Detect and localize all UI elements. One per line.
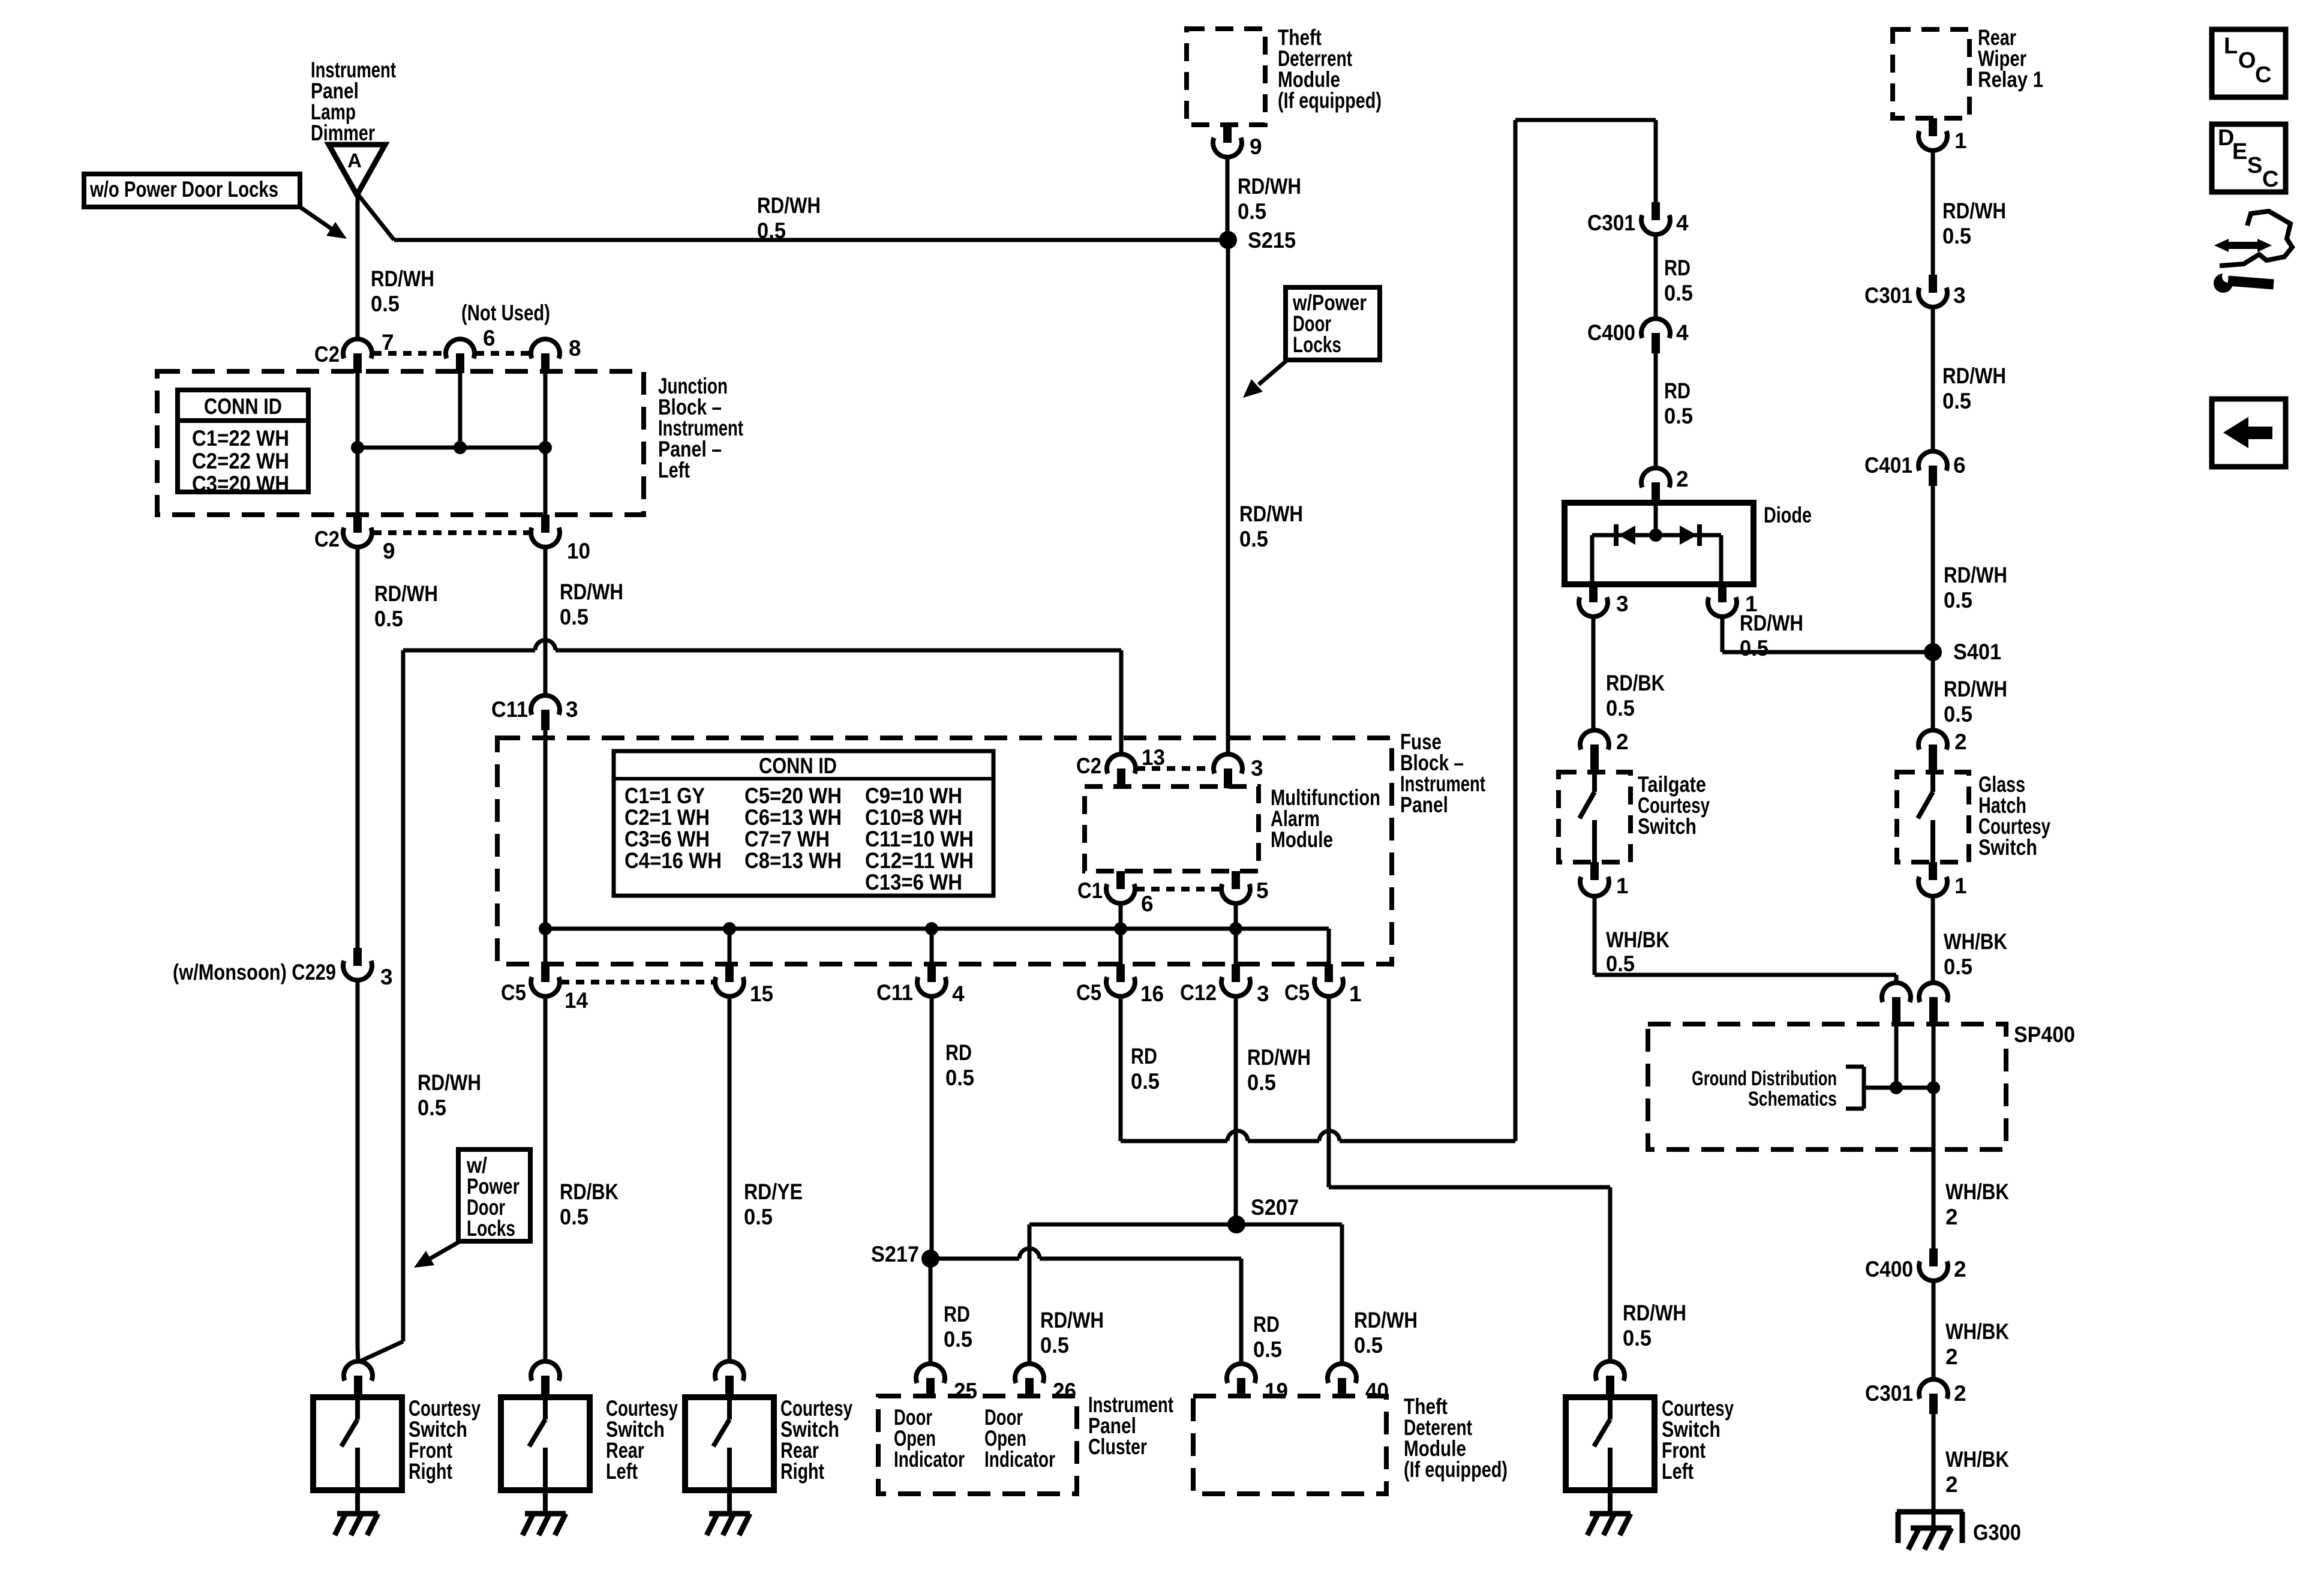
label 25: [954, 1379, 977, 1403]
label 14: [565, 988, 588, 1013]
junction block internal wire pin8: [544, 373, 548, 515]
connector C5 pin 14: [531, 964, 560, 996]
wire S207 left branch to pin 26: [1029, 1224, 1236, 1365]
diode label: [1764, 503, 1812, 527]
svg-text:C12=11 WH: C12=11 WH: [865, 848, 974, 873]
wire label RD/WH 0.5 (dimmer feed): [757, 193, 821, 243]
label C301 (pin2): [1865, 1381, 1913, 1406]
wire S215 to fuse block C2-3 (RD/WH): [1226, 240, 1230, 752]
svg-text:0.5: 0.5: [374, 607, 403, 631]
label SP400: [2014, 1022, 2075, 1047]
svg-text:0.5: 0.5: [1354, 1333, 1383, 1358]
wire SP400 to C400-2 (WH/BK): [1932, 1149, 1936, 1248]
rear wiper relay 1 dashed box: [1893, 29, 1969, 118]
svg-text:2: 2: [1945, 1472, 1958, 1497]
label 9: [383, 539, 395, 563]
svg-text:0.5: 0.5: [418, 1095, 446, 1120]
junction S207: [1227, 1215, 1245, 1233]
glass hatch courtesy switch: [1897, 766, 1969, 862]
svg-text:Dimmer: Dimmer: [311, 121, 375, 145]
svg-text:5: 5: [1256, 878, 1269, 903]
svg-text:1: 1: [1954, 128, 1967, 153]
svg-text:C7=7 WH: C7=7 WH: [744, 827, 830, 851]
wire relay to C301-3 (RD/WH): [1931, 151, 1935, 275]
wire label RD/BK 0.5: [560, 1179, 618, 1229]
svg-text:0.5: 0.5: [1606, 696, 1635, 721]
schematic navigation icon (panel with arrow and wrench): [2214, 211, 2292, 293]
label 3 (C12): [1257, 981, 1269, 1006]
label 4: [952, 981, 965, 1006]
label 40: [1365, 1379, 1389, 1403]
instrument panel lamp dimmer label: [311, 58, 396, 145]
theft deterrent module dashed box (bottom): [1193, 1396, 1386, 1494]
label 5 (module): [1256, 878, 1269, 903]
svg-text:0.5: 0.5: [1131, 1069, 1160, 1094]
connector C5 pin 1: [1314, 964, 1343, 996]
diode internal right drop: [1719, 535, 1724, 584]
wire label RD 0.5 (pin25): [944, 1302, 972, 1352]
svg-text:S215: S215: [1248, 228, 1296, 253]
connector above courtesy switch rear right: [715, 1361, 744, 1397]
instrument panel lamp dimmer triangle symbol A: [329, 145, 385, 195]
svg-text:C5: C5: [501, 980, 526, 1005]
svg-text:L: L: [2224, 34, 2238, 59]
wire label RD 0.5 (a): [1664, 256, 1693, 305]
fuse bus dot (C12-3 wire): [1229, 922, 1242, 935]
wire label RD/WH 0.5 (diode out): [1740, 611, 1803, 661]
svg-text:C13=6 WH: C13=6 WH: [865, 870, 962, 894]
wire hop over C5-1 wire: [1319, 1131, 1340, 1141]
svg-text:RD/YE: RD/YE: [744, 1179, 803, 1204]
wire w/PDL horizontal bus: [403, 649, 1121, 653]
label 6 (module): [1141, 891, 1154, 916]
label C2 (pin13): [1076, 754, 1101, 778]
svg-text:RD/WH: RD/WH: [371, 266, 434, 291]
connector pin 2 (glass hatch switch): [1918, 730, 1947, 774]
svg-text:7: 7: [382, 330, 394, 355]
wire hop over pin10 wire: [535, 640, 556, 650]
tailgate courtesy switch label: [1638, 772, 1710, 839]
wire tailgate to SP400 (WH/BK): [1595, 896, 1896, 983]
svg-text:w/o Power Door Locks: w/o Power Door Locks: [89, 177, 278, 202]
courtesy switch rear right: [685, 1397, 774, 1535]
connector pin 19 (theft deterrent module): [1227, 1364, 1256, 1398]
svg-text:(Not Used): (Not Used): [461, 301, 550, 325]
svg-text:C400: C400: [1865, 1257, 1913, 1281]
svg-text:RD: RD: [944, 1302, 970, 1326]
label 2 (glass hatch): [1954, 730, 1967, 754]
label S217: [871, 1242, 919, 1266]
wire diode pin3 to tailgate switch (RD/BK): [1592, 617, 1596, 730]
diode internal dot: [1649, 529, 1662, 542]
svg-text:A: A: [347, 149, 362, 172]
label C2 (pin9): [314, 527, 340, 551]
connector C11 pin 4: [917, 964, 946, 996]
svg-text:C3=6 WH: C3=6 WH: [624, 827, 710, 851]
junction bus dot C: [539, 441, 552, 454]
svg-text:C301: C301: [1865, 1381, 1913, 1406]
wire hop over pin26 wire: [1019, 1248, 1040, 1259]
SP400 bus dot right: [1927, 1081, 1940, 1094]
wire S207 right branch to pin 40: [1236, 1224, 1342, 1365]
svg-text:2: 2: [1954, 1381, 1966, 1406]
svg-text:C2: C2: [1076, 754, 1101, 778]
svg-text:Indicator: Indicator: [984, 1447, 1055, 1472]
svg-text:RD/WH: RD/WH: [1238, 174, 1301, 199]
w/ Power Door Locks callout box (left): [458, 1149, 530, 1241]
ground distribution schematics label: [1692, 1067, 1837, 1110]
svg-text:C9=10 WH: C9=10 WH: [865, 784, 962, 808]
connector C401 pin 6: [1918, 451, 1947, 486]
svg-text:0.5: 0.5: [1942, 389, 1971, 413]
svg-text:0.5: 0.5: [1606, 951, 1635, 976]
svg-text:C2=1 WH: C2=1 WH: [624, 805, 710, 830]
svg-text:C2: C2: [314, 527, 340, 551]
svg-text:C12: C12: [1180, 980, 1217, 1005]
label C5 (pin16): [1076, 980, 1101, 1005]
w/ Power Door Locks arrow (left): [414, 1241, 460, 1268]
connector pin 40 (theft deterrent module): [1328, 1364, 1356, 1398]
svg-text:3: 3: [1616, 592, 1629, 616]
svg-text:S217: S217: [871, 1242, 919, 1266]
dash between pin6 and pin8: [476, 351, 530, 356]
label 3 (C11): [566, 697, 578, 722]
connector pin 15: [715, 964, 744, 996]
connector C400 pin 4: [1641, 319, 1670, 353]
courtesy switch rear left: [501, 1397, 590, 1535]
w/Power Door Locks callout box (upper): [1286, 287, 1380, 360]
label (w/Monsoon) C229: [173, 960, 336, 984]
wire C2-9 to C229 (RD/WH): [356, 547, 360, 948]
label C301 (pin3): [1864, 283, 1912, 308]
svg-text:RD/BK: RD/BK: [1606, 671, 1665, 695]
svg-text:4: 4: [1676, 211, 1689, 235]
svg-text:14: 14: [565, 988, 588, 1013]
label 9 (theft module): [1250, 134, 1262, 159]
svg-text:0.5: 0.5: [1664, 281, 1693, 305]
svg-text:0.5: 0.5: [1944, 702, 1972, 727]
wire S217 branch to pin 19: [930, 1259, 1241, 1365]
svg-text:C: C: [2262, 167, 2278, 192]
label C400 (pin4): [1587, 320, 1635, 345]
label 6: [483, 326, 496, 350]
svg-text:CONN ID: CONN ID: [759, 754, 837, 778]
svg-text:0.5: 0.5: [757, 218, 786, 243]
junction block dashed box: [157, 371, 644, 515]
w/Power Door Locks arrow (upper): [1243, 360, 1287, 398]
wire label RD/WH 0.5 (pin40): [1354, 1308, 1418, 1358]
svg-text:C400: C400: [1587, 320, 1635, 345]
svg-text:RD: RD: [945, 1040, 972, 1065]
svg-text:WH/BK: WH/BK: [1945, 1319, 2009, 1344]
junction block internal bus: [358, 446, 545, 450]
courtesy switch rear left label: [606, 1396, 678, 1484]
connector C11 pin 3 (fuse block top): [531, 695, 560, 730]
svg-text:Switch: Switch: [1978, 835, 2037, 860]
svg-text:O: O: [2238, 48, 2256, 73]
connector into SP400 left: [1882, 983, 1911, 1026]
wire C5-14 to courtesy switch rear left (RD/BK): [544, 996, 548, 1361]
label 19: [1265, 1379, 1288, 1403]
label C5 (pin14): [501, 980, 526, 1005]
svg-text:RD: RD: [1131, 1044, 1157, 1068]
svg-text:6: 6: [1953, 453, 1966, 478]
label 2 (C301): [1954, 1381, 1966, 1406]
diode symbol right: [1680, 524, 1700, 546]
svg-text:C301: C301: [1864, 283, 1912, 308]
junction S215: [1219, 231, 1237, 249]
svg-text:RD/WH: RD/WH: [757, 193, 821, 218]
wire label WH/BK 2 (c): [1945, 1447, 2009, 1497]
dash between pin9 and pin10: [373, 530, 530, 535]
SP400 dashed box: [1648, 1024, 2006, 1149]
svg-text:S401: S401: [1953, 640, 2001, 664]
connector pin 9 (theft deterrent module): [1213, 125, 1242, 157]
label 2 (diode): [1676, 467, 1689, 491]
connector pin 26 (instrument panel cluster): [1015, 1364, 1044, 1398]
svg-text:2: 2: [1616, 730, 1629, 754]
label 1 (C5): [1349, 981, 1362, 1006]
dash between pin6m and pin5: [1136, 887, 1220, 891]
wire w/PDL vertical (x=672): [401, 650, 406, 1341]
svg-text:4: 4: [952, 981, 965, 1006]
tailgate courtesy switch: [1559, 766, 1631, 862]
svg-text:Locks: Locks: [1293, 332, 1341, 357]
wire label WH/BK 0.5 (tailgate gnd): [1606, 927, 1670, 976]
connector C301 pin 4: [1641, 202, 1670, 235]
svg-text:CONN ID: CONN ID: [204, 394, 282, 419]
svg-text:13: 13: [1142, 745, 1165, 770]
wire label RD 0.5 (C11-4): [945, 1040, 974, 1090]
connector C5 pin 16: [1106, 964, 1135, 996]
wire label RD/YE 0.5: [744, 1179, 803, 1229]
wire glass hatch to SP400 (WH/BK): [1931, 896, 1935, 983]
connector pin 1 (rear wiper relay): [1918, 118, 1947, 151]
connector pin 2 (tailgate switch): [1580, 730, 1609, 774]
wire label RD/WH 0.5 (theft feed): [1238, 174, 1301, 224]
wire label RD/WH 0.5 (pin10 wire): [560, 580, 623, 629]
wire C11-3 into fuse block to bus: [544, 730, 548, 929]
wire theft module to S215 (RD/WH): [1226, 157, 1230, 240]
svg-text:RD/WH: RD/WH: [1942, 199, 2006, 223]
wire label RD/WH 0.5 (front left): [1623, 1301, 1686, 1350]
ground G300: [1897, 1512, 1963, 1550]
junction block label: [658, 374, 743, 482]
svg-text:Diode: Diode: [1764, 503, 1812, 527]
svg-text:0.5: 0.5: [1253, 1337, 1282, 1362]
svg-text:3: 3: [566, 697, 578, 722]
svg-text:0.5: 0.5: [1247, 1070, 1276, 1095]
wire C400-2 to C301-2 (WH/BK): [1932, 1281, 1936, 1379]
wire label RD/WH 0.5 (e): [1944, 677, 2007, 727]
svg-text:Panel: Panel: [1400, 792, 1448, 817]
wire label RD/WH 0.5 (pin7 wire): [371, 266, 434, 316]
SP400 bus dot left: [1890, 1081, 1903, 1094]
svg-text:3: 3: [1953, 283, 1966, 308]
label C11 (pin4): [876, 980, 913, 1005]
svg-text:Left: Left: [658, 458, 690, 482]
diode box: [1565, 503, 1753, 584]
connector pin 6 not used: [446, 339, 475, 373]
junction S401: [1924, 643, 1942, 661]
wire C301-4 to C400-4 (RD): [1654, 235, 1658, 319]
svg-text:10: 10: [567, 539, 590, 563]
svg-text:C2: C2: [314, 342, 340, 367]
svg-text:1: 1: [1616, 873, 1629, 898]
svg-text:SP400: SP400: [2014, 1022, 2075, 1047]
fuse bus dot (C5-14 wire): [539, 922, 552, 935]
svg-text:2: 2: [1945, 1205, 1958, 1229]
fuse block dashed box: [497, 738, 1392, 964]
svg-text:Indicator: Indicator: [894, 1447, 965, 1472]
wire label RD 0.5 (b): [1664, 379, 1693, 428]
svg-text:Relay 1: Relay 1: [1978, 67, 2043, 92]
wire C301-3 to C401-6 (RD/WH): [1931, 307, 1935, 451]
svg-text:19: 19: [1265, 1379, 1288, 1403]
svg-text:RD: RD: [1664, 379, 1691, 403]
wire C11-4 down to S217 (RD): [930, 996, 934, 1259]
svg-text:RD/WH: RD/WH: [1623, 1301, 1686, 1325]
svg-text:Schematics: Schematics: [1748, 1088, 1837, 1110]
connector C2 pin 13 (module top): [1107, 754, 1136, 788]
svg-text:15: 15: [750, 981, 773, 1006]
wire label RD/WH 0.5 (relay): [1942, 199, 2006, 248]
label 4 (C400): [1676, 320, 1689, 345]
svg-text:G300: G300: [1973, 1520, 2021, 1545]
label C11 (pin3): [491, 697, 528, 722]
label 1 (glass hatch): [1954, 873, 1967, 898]
label 3 (C229): [380, 965, 393, 989]
wire label RD/WH 0.5 (pin26): [1040, 1308, 1104, 1358]
label 2 (C400): [1954, 1257, 1966, 1281]
fuse bus dot (C5-16 wire): [1114, 922, 1127, 935]
junction S217: [921, 1250, 939, 1268]
svg-text:0.5: 0.5: [1623, 1326, 1652, 1350]
label C2 (pin7): [314, 342, 340, 367]
dash between pin13 and pin3: [1137, 766, 1213, 771]
svg-text:E: E: [2232, 139, 2247, 164]
svg-text:RD/WH: RD/WH: [1040, 1308, 1104, 1332]
svg-text:WH/BK: WH/BK: [1606, 927, 1670, 952]
wire label WH/BK 0.5 (hatch gnd): [1944, 929, 2007, 979]
connector above courtesy switch front right: [344, 1361, 373, 1397]
courtesy switch front right: [313, 1397, 402, 1535]
diode internal left drop: [1590, 535, 1595, 584]
CONN ID table (junction block): [178, 390, 308, 496]
svg-text:9: 9: [1250, 134, 1262, 159]
connector into SP400 right: [1919, 983, 1948, 1026]
svg-text:0.5: 0.5: [1238, 199, 1266, 224]
connector pin 1 (tailgate switch): [1580, 862, 1609, 896]
connector C301 pin 2: [1919, 1379, 1948, 1414]
wire C400-4 to diode pin 2 (RD): [1654, 353, 1658, 468]
wire hop over C12-3 wire: [1227, 1131, 1248, 1141]
svg-text:C11: C11: [876, 980, 913, 1005]
svg-text:WH/BK: WH/BK: [1945, 1179, 2009, 1204]
svg-text:Module: Module: [1271, 827, 1333, 852]
wire C229 to courtesy switch front right: [358, 980, 358, 1361]
svg-text:0.5: 0.5: [560, 605, 588, 629]
svg-text:Right: Right: [780, 1459, 824, 1484]
svg-text:0.5: 0.5: [371, 292, 400, 316]
wire C301-2 to G300 (WH/BK): [1932, 1414, 1936, 1528]
svg-text:Switch: Switch: [1638, 814, 1697, 839]
svg-text:6: 6: [483, 326, 496, 350]
instrument panel cluster dashed box: [878, 1396, 1077, 1494]
label S215: [1248, 228, 1296, 253]
svg-text:1: 1: [1954, 873, 1967, 898]
connector pin 8 (junction block top): [531, 339, 560, 373]
label 3 (module): [1251, 756, 1263, 781]
svg-text:C2=22 WH: C2=22 WH: [192, 449, 289, 473]
svg-text:C1: C1: [1077, 878, 1103, 903]
svg-text:RD/WH: RD/WH: [1944, 677, 2007, 701]
label 16: [1140, 981, 1164, 1006]
svg-text:RD/WH: RD/WH: [418, 1070, 481, 1095]
connector pin 2 (diode): [1641, 468, 1670, 503]
wire C5-1 down right to courtesy switch front left (RD/WH): [1329, 996, 1610, 1361]
connector C1 pin 6 (module bottom): [1106, 871, 1135, 903]
svg-text:C4=16 WH: C4=16 WH: [624, 848, 722, 873]
svg-text:RD: RD: [1253, 1312, 1280, 1337]
wire dimmer down to C2 pin 7: [356, 193, 360, 338]
wire label RD 0.5 (pin19): [1253, 1312, 1282, 1362]
svg-text:3: 3: [380, 965, 393, 989]
wire bus corner to C5-1: [1327, 929, 1331, 964]
svg-text:C5=20 WH: C5=20 WH: [744, 784, 842, 808]
svg-text:RD/WH: RD/WH: [1247, 1045, 1311, 1070]
wire label RD/WH 0.5 (d): [1944, 563, 2007, 613]
connector C12 pin 3: [1221, 964, 1250, 996]
door open indicator label 1: [894, 1405, 965, 1472]
connector above courtesy switch front left: [1596, 1361, 1625, 1397]
svg-text:0.5: 0.5: [1944, 954, 1972, 979]
wire bus branch C11-4: [930, 929, 934, 964]
connector C229 pin 3 (w/Monsoon): [343, 948, 372, 980]
svg-text:C1=1 GY: C1=1 GY: [624, 784, 705, 808]
svg-text:C3=20 WH: C3=20 WH: [192, 472, 289, 496]
rear wiper relay 1 label: [1978, 25, 2043, 92]
svg-text:RD/WH: RD/WH: [1740, 611, 1803, 635]
label 26: [1053, 1379, 1076, 1403]
label C12 (pin3): [1180, 980, 1217, 1005]
label C400 (pin2): [1865, 1257, 1913, 1281]
diode internal feed wire: [1654, 503, 1658, 535]
theft deterrent module label (top): [1278, 25, 1382, 113]
junction bus dot A: [351, 441, 364, 454]
svg-text:Ground Distribution: Ground Distribution: [1692, 1067, 1837, 1090]
fuse bus dot (C11-4 wire): [925, 922, 938, 935]
wire label RD/WH 0.5 (c): [1942, 364, 2006, 413]
svg-text:8: 8: [569, 336, 581, 361]
connector pin 3 (diode bottom): [1579, 584, 1608, 617]
courtesy switch rear right label: [780, 1396, 852, 1484]
label 8: [569, 336, 581, 361]
svg-text:C5: C5: [1076, 980, 1101, 1005]
fuse block label: [1400, 730, 1485, 817]
svg-text:WH/BK: WH/BK: [1945, 1447, 2009, 1472]
glass hatch courtesy switch label: [1978, 772, 2050, 860]
svg-text:C301: C301: [1587, 211, 1635, 235]
svg-text:16: 16: [1140, 981, 1164, 1006]
wire label RD/WH 0.5 (C12-3): [1247, 1045, 1311, 1095]
svg-text:S: S: [2247, 153, 2262, 178]
svg-text:0.5: 0.5: [945, 1065, 974, 1090]
wire bus corner down to fuse block C2-13: [1119, 650, 1124, 752]
svg-text:0.5: 0.5: [1239, 527, 1268, 551]
wire module C1-6 to bus: [1119, 903, 1123, 964]
diode internal bus: [1592, 533, 1721, 538]
